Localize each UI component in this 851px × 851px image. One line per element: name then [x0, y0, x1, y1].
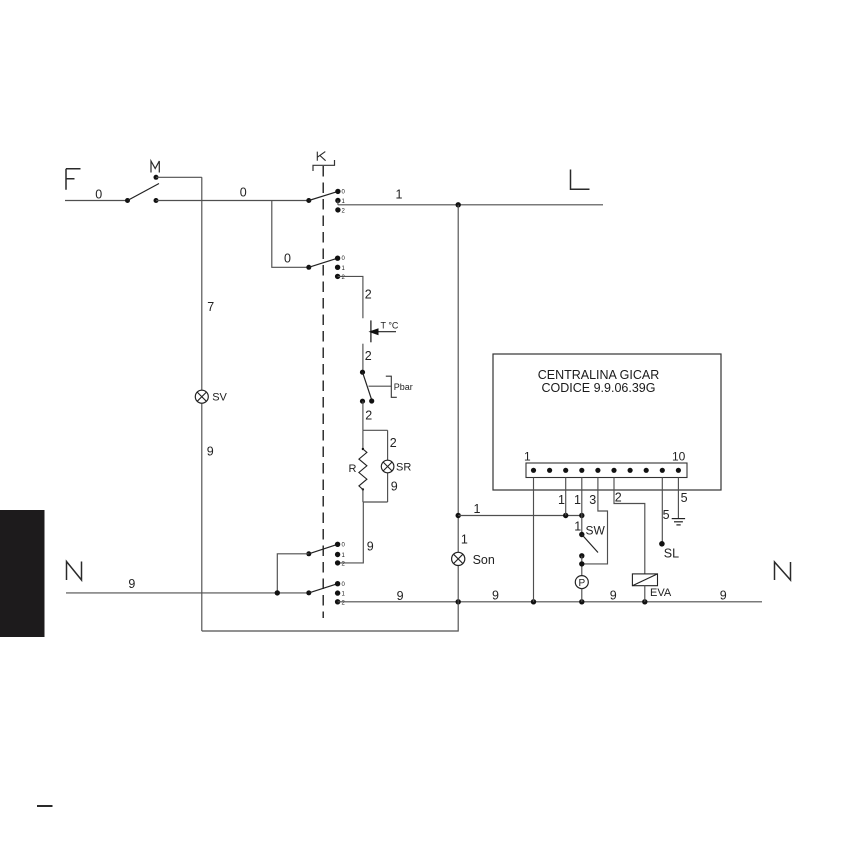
left branch vertical (M to bottom link) — [201, 177, 203, 631]
label N left (neutral) — [67, 562, 82, 581]
label 2 — [390, 436, 397, 450]
black sidebar tab — [0, 510, 45, 637]
svg-text:1: 1 — [396, 188, 403, 202]
label M — [151, 161, 159, 173]
svg-text:SR: SR — [396, 462, 411, 474]
Pbar bracket — [386, 376, 397, 397]
wire label 2 — [365, 349, 372, 363]
lamp Son — [452, 552, 465, 565]
label L (line output) — [571, 170, 590, 190]
svg-text:5: 5 — [663, 508, 670, 522]
wire label 0 — [95, 188, 102, 202]
svg-text:9: 9 — [492, 589, 499, 603]
svg-text:3: 3 — [589, 493, 596, 507]
pin9 label 5 — [663, 508, 670, 522]
lamp SR branch wires — [387, 430, 389, 502]
wire label 0 — [284, 252, 291, 266]
bottom link wire — [202, 602, 458, 631]
terminal label 1 — [524, 450, 531, 464]
control box CENTRALINA — [493, 354, 721, 490]
K pole4 position labels 0 1 2 — [342, 582, 346, 607]
label 1 above SW — [574, 519, 581, 533]
thermostat actuation arrow — [369, 328, 397, 335]
K pole1 position labels 0 1 2 — [342, 190, 346, 215]
pin5 wire bypass to below SW — [582, 478, 608, 564]
K bracket mark — [313, 160, 335, 171]
svg-text:2: 2 — [365, 349, 372, 363]
svg-text:SL: SL — [664, 547, 679, 561]
9 line labels — [397, 589, 727, 604]
wire label 9 — [128, 577, 135, 591]
svg-text:0: 0 — [95, 188, 102, 202]
pin10 label 5 — [681, 491, 688, 505]
svg-text:9: 9 — [367, 540, 374, 554]
label SR — [396, 462, 411, 474]
K pole 1 — [306, 189, 340, 213]
pin4 wire down to SW — [581, 478, 583, 535]
wire label 0 — [240, 186, 247, 200]
label 9 — [391, 480, 398, 494]
svg-text:T °C: T °C — [381, 321, 399, 331]
wire branch down to K pole2 — [272, 201, 309, 268]
svg-text:9: 9 — [720, 589, 727, 603]
label SV — [212, 391, 227, 403]
svg-text:CENTRALINA GICAR: CENTRALINA GICAR — [538, 368, 660, 382]
pump motor P — [575, 576, 588, 602]
K pole 3 — [306, 542, 340, 566]
terminal strip — [526, 463, 687, 478]
label R — [349, 463, 357, 475]
svg-text:1: 1 — [524, 450, 531, 464]
page dash bottom-left — [37, 805, 53, 807]
svg-text:0: 0 — [240, 186, 247, 200]
9 return line to right N — [338, 599, 762, 604]
svg-text:Pbar: Pbar — [394, 382, 413, 392]
label K — [317, 152, 325, 161]
lamp SR — [381, 460, 394, 473]
pin5 label 3 — [589, 493, 596, 507]
wire K pole2 contact2 down to thermostat — [338, 276, 363, 318]
wire Pbar to parallel block — [362, 401, 364, 430]
svg-text:10: 10 — [672, 450, 686, 464]
switch M (main switch) — [125, 175, 159, 203]
svg-text:2: 2 — [390, 436, 397, 450]
svg-text:9: 9 — [391, 480, 398, 494]
wire label 1 — [396, 188, 403, 202]
label N right (neutral) — [775, 562, 791, 580]
wire thermostat to Pbar switch — [362, 344, 364, 373]
svg-text:5: 5 — [681, 491, 688, 505]
label 1 above Son — [461, 533, 468, 547]
parallel block bottom bar — [363, 501, 388, 503]
N line — [66, 590, 309, 595]
pressure switch Pbar — [360, 370, 391, 404]
thermostat T C contact bar — [370, 320, 372, 342]
selector K dashed axis — [322, 166, 324, 618]
label EVA — [650, 587, 672, 599]
label SW — [586, 524, 606, 538]
svg-text:1: 1 — [574, 519, 581, 533]
svg-text:1: 1 — [574, 493, 581, 507]
svg-text:9: 9 — [128, 577, 135, 591]
svg-text:R: R — [349, 463, 357, 475]
switch SW — [579, 532, 598, 576]
svg-text:2: 2 — [365, 288, 372, 302]
pin4 label 1 — [574, 493, 581, 507]
pin1 wire down to 9 line — [533, 478, 535, 602]
pin6 label 2 — [615, 490, 622, 504]
lamp SV — [195, 390, 208, 403]
wire K pole1 to L, node at Son branch — [338, 202, 603, 207]
pin9 wire to SL — [661, 478, 663, 544]
solenoid valve EVA — [632, 574, 657, 602]
svg-text:EVA: EVA — [650, 587, 672, 599]
svg-text:1: 1 — [461, 533, 468, 547]
pin10 wire to ground — [677, 478, 679, 519]
svg-text:SW: SW — [586, 524, 606, 538]
label Pbar — [394, 382, 413, 392]
box title text — [538, 368, 660, 395]
label Son — [473, 553, 495, 567]
wire F to switch M — [65, 200, 128, 202]
svg-text:2: 2 — [615, 490, 622, 504]
wire label 7 — [207, 300, 214, 314]
level probe SL — [659, 541, 665, 547]
label F (phase input) — [66, 169, 81, 190]
label SL — [664, 547, 679, 561]
svg-text:9: 9 — [207, 445, 214, 459]
svg-text:9: 9 — [610, 589, 617, 603]
svg-text:1: 1 — [558, 493, 565, 507]
Son branch vertical from L line — [456, 205, 461, 602]
svg-text:Son: Son — [473, 553, 495, 567]
label T C — [381, 321, 399, 331]
wire pole3 common to N line — [277, 554, 309, 593]
svg-text:0: 0 — [284, 252, 291, 266]
svg-text:1: 1 — [474, 502, 481, 516]
wire label 9 — [207, 445, 214, 459]
1-line horizontal to pins — [458, 513, 584, 518]
K pole 4 — [306, 581, 340, 605]
wire label 9 — [367, 540, 374, 554]
svg-text:9: 9 — [397, 589, 404, 603]
K pole3 position labels 0 1 2 — [342, 542, 346, 567]
svg-text:CODICE 9.9.06.39G: CODICE 9.9.06.39G — [542, 381, 656, 395]
parallel block top bar — [363, 429, 388, 431]
resistor R — [359, 430, 367, 502]
wire label 1 — [474, 502, 481, 516]
pin6 wire to EVA — [614, 478, 645, 574]
svg-text:7: 7 — [207, 300, 214, 314]
wire label 2 — [365, 288, 372, 302]
svg-text:P: P — [578, 578, 585, 589]
pin3 label 1 — [558, 493, 565, 507]
svg-text:2: 2 — [365, 409, 372, 423]
wire M lower contact to K pole1 common — [156, 200, 309, 202]
wire M upper contact to left branch vertical — [156, 176, 202, 178]
ground — [672, 519, 685, 525]
K pole2 position labels 0 1 2 — [342, 256, 346, 281]
K pole 2 — [306, 256, 340, 280]
wire block down to K pole3 contact2 — [338, 502, 364, 563]
wire label 2 — [365, 409, 372, 423]
terminal label 10 — [672, 450, 686, 464]
pin3 wire down to 1 line — [565, 478, 567, 516]
svg-text:SV: SV — [212, 391, 227, 403]
